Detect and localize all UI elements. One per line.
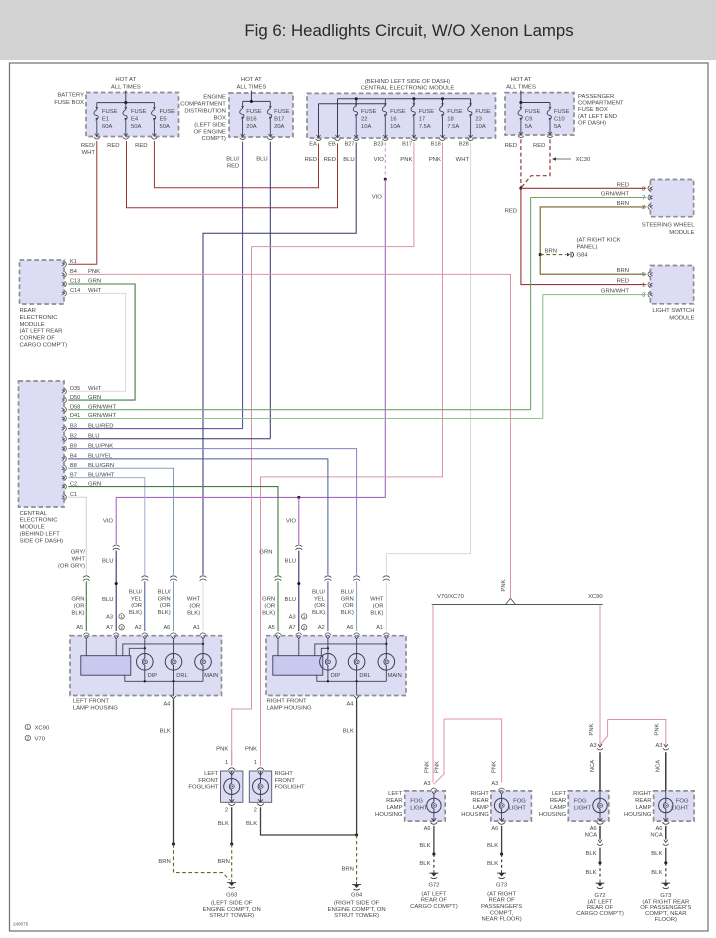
svg-text:CARGO COMP'T): CARGO COMP'T) <box>20 343 68 349</box>
svg-text:FLOOR): FLOOR) <box>655 917 677 923</box>
svg-text:HOT AT: HOT AT <box>241 77 262 83</box>
svg-text:1: 1 <box>225 760 228 766</box>
svg-text:(OR: (OR <box>314 603 325 609</box>
svg-text:HOUSING: HOUSING <box>539 812 567 818</box>
svg-text:RIGHT: RIGHT <box>275 771 294 777</box>
svg-text:BLK: BLK <box>419 861 430 867</box>
svg-text:BRN: BRN <box>545 249 557 255</box>
svg-text:(RIGHT SIDE OF: (RIGHT SIDE OF <box>334 901 380 907</box>
svg-text:NEAR FLOOR): NEAR FLOOR) <box>481 917 521 923</box>
svg-text:FOGLIGHT: FOGLIGHT <box>188 785 219 791</box>
svg-text:YEL: YEL <box>314 596 326 602</box>
svg-text:LAMP HOUSING: LAMP HOUSING <box>73 706 118 712</box>
svg-text:BLK): BLK) <box>312 610 325 616</box>
svg-text:ELECTRONIC: ELECTRONIC <box>20 518 59 524</box>
svg-text:2: 2 <box>225 807 228 813</box>
svg-text:CARGO COMP'T): CARGO COMP'T) <box>410 904 458 910</box>
svg-text:18: 18 <box>447 117 453 123</box>
svg-text:A1: A1 <box>376 625 383 631</box>
svg-text:A7: A7 <box>289 625 296 631</box>
svg-text:A3: A3 <box>106 614 113 620</box>
svg-text:LIGHT: LIGHT <box>671 806 689 812</box>
svg-text:RED: RED <box>135 143 147 149</box>
svg-text:G84: G84 <box>577 253 589 259</box>
svg-text:BLK: BLK <box>585 870 596 876</box>
svg-text:MODULE: MODULE <box>669 230 694 236</box>
svg-text:HOUSING: HOUSING <box>624 812 652 818</box>
svg-text:RED: RED <box>505 208 517 214</box>
svg-text:1: 1 <box>27 725 30 730</box>
svg-text:BRN: BRN <box>217 859 229 865</box>
svg-text:V70/XC70: V70/XC70 <box>437 594 465 600</box>
svg-text:(OR: (OR <box>131 603 142 609</box>
svg-text:RED: RED <box>505 143 517 149</box>
svg-text:FOG: FOG <box>410 799 423 805</box>
svg-text:RED/: RED/ <box>81 143 95 149</box>
svg-text:LEFT FRONT: LEFT FRONT <box>73 698 110 704</box>
svg-text:2: 2 <box>303 625 306 630</box>
svg-text:BLK): BLK) <box>370 610 383 616</box>
svg-text:LAMP: LAMP <box>473 805 489 811</box>
svg-text:(OR: (OR <box>160 603 171 609</box>
svg-text:(AT LEFT REAR: (AT LEFT REAR <box>20 329 63 335</box>
svg-text:BLK: BLK <box>585 851 596 857</box>
svg-text:1: 1 <box>254 760 257 766</box>
svg-text:(LEFT SIDE: (LEFT SIDE <box>194 122 226 128</box>
svg-text:BLK: BLK <box>160 729 171 735</box>
svg-text:(BEHIND LEFT: (BEHIND LEFT <box>20 532 61 538</box>
svg-text:G93: G93 <box>226 892 238 898</box>
svg-text:REAR: REAR <box>386 798 402 804</box>
svg-text:ENGINE: ENGINE <box>203 95 226 101</box>
svg-text:G72: G72 <box>594 893 605 899</box>
svg-text:FUSE: FUSE <box>160 109 176 115</box>
svg-text:C9: C9 <box>525 117 532 123</box>
svg-text:VIO: VIO <box>286 519 297 525</box>
svg-text:REAR: REAR <box>472 798 488 804</box>
svg-text:FUSE: FUSE <box>246 109 262 115</box>
svg-text:A5: A5 <box>76 625 83 631</box>
svg-text:20A: 20A <box>246 124 256 130</box>
svg-text:BLK): BLK) <box>341 610 354 616</box>
svg-text:FUSE: FUSE <box>525 109 541 115</box>
svg-text:COMPARTMENT: COMPARTMENT <box>180 102 226 108</box>
svg-text:PNK: PNK <box>400 157 412 163</box>
svg-text:WHT: WHT <box>187 597 201 603</box>
svg-text:16: 16 <box>390 117 396 123</box>
svg-text:A6: A6 <box>163 625 170 631</box>
svg-text:HOUSING: HOUSING <box>375 812 403 818</box>
svg-text:WHT: WHT <box>72 556 86 562</box>
svg-text:ELECTRONIC: ELECTRONIC <box>20 315 59 321</box>
svg-text:G73: G73 <box>496 882 508 888</box>
svg-text:BLK): BLK) <box>129 610 142 616</box>
svg-text:B27: B27 <box>344 142 354 148</box>
svg-text:A3: A3 <box>590 743 597 749</box>
svg-text:MAIN: MAIN <box>388 673 402 679</box>
svg-text:LEFT: LEFT <box>204 771 219 777</box>
svg-text:ENGINE COMP'T, ON: ENGINE COMP'T, ON <box>203 907 261 913</box>
svg-text:BLK): BLK) <box>71 610 84 616</box>
svg-text:BLU: BLU <box>343 157 354 163</box>
svg-text:RED: RED <box>533 143 545 149</box>
svg-text:RED: RED <box>107 143 119 149</box>
svg-text:PNK: PNK <box>589 723 595 735</box>
svg-text:LIGHT: LIGHT <box>574 806 592 812</box>
svg-text:B16: B16 <box>246 117 256 123</box>
svg-text:BLU/: BLU/ <box>129 589 142 595</box>
svg-text:NCA: NCA <box>585 833 598 839</box>
svg-text:CORNER OF: CORNER OF <box>20 336 56 342</box>
svg-text:REAR OF: REAR OF <box>489 898 516 904</box>
svg-text:EA: EA <box>309 142 317 148</box>
svg-text:(OR: (OR <box>189 603 200 609</box>
svg-text:A2: A2 <box>135 625 142 631</box>
svg-text:PANEL): PANEL) <box>577 244 598 250</box>
svg-text:OF DASH): OF DASH) <box>578 120 606 126</box>
svg-text:7.5A: 7.5A <box>419 124 431 130</box>
svg-text:PNK: PNK <box>424 761 430 773</box>
svg-text:(AT LEFT END: (AT LEFT END <box>578 114 617 120</box>
svg-text:50A: 50A <box>131 124 141 130</box>
svg-text:FOG: FOG <box>676 799 689 805</box>
svg-text:MAIN: MAIN <box>204 673 218 679</box>
svg-text:A1: A1 <box>193 625 200 631</box>
svg-text:BLK: BLK <box>487 861 498 867</box>
svg-text:V70: V70 <box>35 736 46 742</box>
svg-text:FUSE: FUSE <box>361 109 377 115</box>
svg-text:2: 2 <box>27 736 30 741</box>
svg-text:RIGHT: RIGHT <box>633 791 652 797</box>
svg-text:FUSE: FUSE <box>554 109 570 115</box>
svg-text:A6: A6 <box>590 826 597 832</box>
svg-text:G73: G73 <box>660 893 672 899</box>
svg-text:LAMP: LAMP <box>386 805 402 811</box>
svg-text:(OR: (OR <box>74 603 85 609</box>
svg-text:BLU/: BLU/ <box>226 156 239 162</box>
svg-text:BRN: BRN <box>341 867 353 873</box>
svg-text:3: 3 <box>642 293 645 299</box>
svg-text:LIGHT: LIGHT <box>509 806 527 812</box>
svg-text:ALL TIMES: ALL TIMES <box>506 84 536 90</box>
svg-text:DISTRIBUTION: DISTRIBUTION <box>184 108 226 114</box>
svg-text:BLK: BLK <box>651 870 662 876</box>
svg-text:BLK: BLK <box>651 851 662 857</box>
svg-text:5: 5 <box>642 272 645 278</box>
svg-text:RED: RED <box>617 279 629 285</box>
svg-text:OF ENGINE: OF ENGINE <box>193 129 225 135</box>
svg-text:BLU: BLU <box>285 597 296 603</box>
svg-text:(LEFT SIDE OF: (LEFT SIDE OF <box>211 901 253 907</box>
svg-text:DIP: DIP <box>148 673 158 679</box>
svg-text:COMPARTMENT: COMPARTMENT <box>578 101 624 107</box>
svg-text:BLU: BLU <box>256 156 267 162</box>
svg-text:YEL: YEL <box>131 596 143 602</box>
svg-text:FUSE: FUSE <box>447 109 463 115</box>
svg-text:(AT RIGHT: (AT RIGHT <box>487 891 516 897</box>
svg-text:RED: RED <box>305 157 317 163</box>
svg-text:DRL: DRL <box>176 673 187 679</box>
svg-text:5A: 5A <box>525 124 532 130</box>
svg-text:B17: B17 <box>274 117 284 123</box>
svg-text:RED: RED <box>227 164 239 170</box>
svg-text:RED: RED <box>324 157 336 163</box>
svg-text:A3: A3 <box>656 743 663 749</box>
svg-text:60A: 60A <box>102 124 112 130</box>
svg-text:B18: B18 <box>431 142 441 148</box>
svg-text:17: 17 <box>419 117 425 123</box>
svg-text:1: 1 <box>642 283 645 289</box>
svg-text:B17: B17 <box>402 142 412 148</box>
svg-text:22: 22 <box>361 117 367 123</box>
svg-text:A3: A3 <box>289 614 296 620</box>
svg-text:GRN: GRN <box>259 550 272 556</box>
svg-text:NCA: NCA <box>590 760 596 773</box>
svg-text:REAR: REAR <box>635 798 651 804</box>
svg-text:A4: A4 <box>347 701 354 707</box>
svg-text:STRUT TOWER): STRUT TOWER) <box>209 913 254 919</box>
svg-text:7: 7 <box>642 196 645 202</box>
svg-text:ALL TIMES: ALL TIMES <box>111 84 141 90</box>
svg-text:GRN: GRN <box>158 596 171 602</box>
svg-text:FOG: FOG <box>574 799 587 805</box>
svg-text:STEERING WHEEL: STEERING WHEEL <box>642 223 695 229</box>
svg-text:REAR: REAR <box>20 308 36 314</box>
svg-text:G72: G72 <box>428 882 439 888</box>
svg-text:A2: A2 <box>318 625 325 631</box>
svg-text:PNK: PNK <box>435 761 441 773</box>
svg-text:PNK: PNK <box>245 746 257 752</box>
svg-text:2: 2 <box>642 205 645 211</box>
svg-text:B28: B28 <box>459 142 469 148</box>
svg-text:GRN: GRN <box>71 597 84 603</box>
svg-text:GRY/: GRY/ <box>71 550 86 556</box>
svg-text:BLU/: BLU/ <box>341 589 354 595</box>
svg-text:CENTRAL ELECTRONIC MODULE: CENTRAL ELECTRONIC MODULE <box>361 85 455 91</box>
svg-text:2: 2 <box>254 807 257 813</box>
svg-text:WHT: WHT <box>456 157 470 163</box>
svg-text:1: 1 <box>303 614 306 619</box>
svg-text:1: 1 <box>120 614 123 619</box>
svg-text:A6: A6 <box>491 826 498 832</box>
svg-text:10A: 10A <box>475 124 485 130</box>
svg-text:LEFT: LEFT <box>552 791 567 797</box>
svg-text:FRONT: FRONT <box>275 778 296 784</box>
svg-text:VIO: VIO <box>374 157 385 163</box>
svg-text:20A: 20A <box>274 124 284 130</box>
svg-text:BLU: BLU <box>285 559 296 565</box>
svg-text:GRN: GRN <box>262 597 275 603</box>
svg-text:XC90: XC90 <box>35 725 50 731</box>
svg-text:VIO: VIO <box>372 195 383 201</box>
svg-text:FOGLIGHT: FOGLIGHT <box>275 785 306 791</box>
svg-text:GRN/WHT: GRN/WHT <box>601 289 630 295</box>
svg-text:BATTERY: BATTERY <box>57 93 84 99</box>
svg-text:E1: E1 <box>102 117 109 123</box>
svg-text:COMP'T): COMP'T) <box>202 136 226 142</box>
svg-text:RIGHT: RIGHT <box>470 791 489 797</box>
svg-text:(OR: (OR <box>343 603 354 609</box>
svg-text:DIP: DIP <box>331 673 341 679</box>
svg-text:2: 2 <box>120 625 123 630</box>
svg-text:LIGHT: LIGHT <box>410 806 428 812</box>
svg-text:BRN: BRN <box>617 201 629 207</box>
svg-text:FOG: FOG <box>513 799 526 805</box>
svg-text:BLK): BLK) <box>158 610 171 616</box>
svg-text:XC30: XC30 <box>576 157 591 163</box>
svg-text:BLK: BLK <box>343 729 354 735</box>
svg-text:(AT RIGHT KICK: (AT RIGHT KICK <box>577 237 621 243</box>
svg-text:RIGHT FRONT: RIGHT FRONT <box>267 698 308 704</box>
svg-text:WHT: WHT <box>370 597 384 603</box>
svg-text:LAMP: LAMP <box>550 805 566 811</box>
svg-text:LAMP HOUSING: LAMP HOUSING <box>267 706 312 712</box>
svg-text:FUSE: FUSE <box>274 109 290 115</box>
svg-text:LIGHT SWITCH: LIGHT SWITCH <box>652 308 694 314</box>
svg-text:FUSE: FUSE <box>102 109 118 115</box>
svg-text:ALL TIMES: ALL TIMES <box>237 84 267 90</box>
svg-text:10A: 10A <box>361 124 371 130</box>
svg-text:BLU/: BLU/ <box>158 589 171 595</box>
svg-text:A7: A7 <box>106 625 113 631</box>
svg-text:PASSENGER: PASSENGER <box>578 94 614 100</box>
svg-text:SIDE OF DASH): SIDE OF DASH) <box>20 538 64 544</box>
svg-text:BLK: BLK <box>246 821 257 827</box>
svg-text:GRN/WHT: GRN/WHT <box>601 192 630 198</box>
svg-text:WHT: WHT <box>82 150 96 156</box>
svg-text:STRUT TOWER): STRUT TOWER) <box>334 913 379 919</box>
svg-text:FUSE BOX: FUSE BOX <box>578 107 608 113</box>
svg-text:VIO: VIO <box>103 519 114 525</box>
svg-text:PASSENGER'S: PASSENGER'S <box>481 904 522 910</box>
svg-text:MODULE: MODULE <box>20 322 45 328</box>
svg-text:248075: 248075 <box>13 922 29 927</box>
svg-text:PNK: PNK <box>491 761 497 773</box>
svg-text:FUSE: FUSE <box>419 109 435 115</box>
svg-text:8: 8 <box>642 186 645 192</box>
svg-text:PNK: PNK <box>429 157 441 163</box>
svg-text:ENGINE COMP'T, ON: ENGINE COMP'T, ON <box>328 907 386 913</box>
svg-text:(AT LEFT: (AT LEFT <box>421 891 446 897</box>
svg-text:(OR: (OR <box>264 603 275 609</box>
svg-text:(OR GRY): (OR GRY) <box>58 563 85 569</box>
svg-text:A6: A6 <box>424 826 431 832</box>
svg-text:BLK): BLK) <box>262 610 275 616</box>
svg-text:5A: 5A <box>554 124 561 130</box>
svg-text:BLU/: BLU/ <box>312 589 325 595</box>
svg-text:BRN: BRN <box>158 859 170 865</box>
svg-text:CARGO COMP'T): CARGO COMP'T) <box>576 911 624 917</box>
svg-text:A3: A3 <box>491 781 498 787</box>
svg-text:A6: A6 <box>347 625 354 631</box>
svg-text:NCA: NCA <box>650 833 663 839</box>
svg-text:PNK: PNK <box>216 746 228 752</box>
svg-text:PNK: PNK <box>501 579 507 591</box>
svg-text:BLU: BLU <box>102 597 113 603</box>
svg-text:A6: A6 <box>656 826 663 832</box>
svg-text:B23: B23 <box>374 142 384 148</box>
svg-text:NCA: NCA <box>656 760 662 773</box>
svg-text:RED: RED <box>617 182 629 188</box>
svg-text:BLU: BLU <box>102 559 113 565</box>
svg-text:CENTRAL: CENTRAL <box>20 511 48 517</box>
svg-text:(OR: (OR <box>373 603 384 609</box>
svg-text:G94: G94 <box>351 892 363 898</box>
svg-text:FUSE BOX: FUSE BOX <box>54 100 84 106</box>
svg-text:REAR OF: REAR OF <box>421 898 448 904</box>
svg-text:HOT AT: HOT AT <box>511 77 532 83</box>
svg-text:DRL: DRL <box>359 673 370 679</box>
svg-text:EB: EB <box>328 142 336 148</box>
svg-text:LAMP: LAMP <box>635 805 651 811</box>
svg-text:HOT AT: HOT AT <box>115 77 136 83</box>
svg-text:BLK: BLK <box>487 843 498 849</box>
svg-text:PNK: PNK <box>655 723 661 735</box>
svg-text:A5: A5 <box>268 625 275 631</box>
svg-text:FUSE: FUSE <box>131 109 147 115</box>
svg-text:XC90: XC90 <box>588 594 603 600</box>
svg-text:BLK): BLK) <box>187 610 200 616</box>
svg-text:FRONT: FRONT <box>198 778 219 784</box>
svg-text:BLK: BLK <box>218 821 229 827</box>
svg-text:50A: 50A <box>160 124 170 130</box>
svg-text:E4: E4 <box>131 117 139 123</box>
svg-text:FUSE: FUSE <box>390 109 406 115</box>
svg-text:(BEHIND LEFT SIDE OF DASH): (BEHIND LEFT SIDE OF DASH) <box>365 79 450 85</box>
svg-text:LEFT: LEFT <box>388 791 403 797</box>
svg-text:BLK: BLK <box>419 843 430 849</box>
svg-text:A3: A3 <box>424 781 431 787</box>
svg-text:FUSE: FUSE <box>475 109 491 115</box>
svg-text:C10: C10 <box>554 117 565 123</box>
svg-text:COMP'T,: COMP'T, <box>490 910 514 916</box>
svg-text:MODULE: MODULE <box>20 525 45 531</box>
svg-text:HOUSING: HOUSING <box>461 812 489 818</box>
svg-text:7.5A: 7.5A <box>447 124 459 130</box>
svg-text:Fig 6: Headlights Circuit, W/O: Fig 6: Headlights Circuit, W/O Xenon Lam… <box>244 21 573 40</box>
svg-text:10A: 10A <box>390 124 400 130</box>
svg-text:BOX: BOX <box>213 115 226 121</box>
svg-text:BRN: BRN <box>617 268 629 274</box>
svg-text:E5: E5 <box>160 117 167 123</box>
svg-text:GRN: GRN <box>341 596 354 602</box>
svg-text:REAR: REAR <box>550 798 566 804</box>
svg-text:23: 23 <box>475 117 481 123</box>
svg-text:MODULE: MODULE <box>669 316 694 322</box>
svg-text:A4: A4 <box>163 701 170 707</box>
